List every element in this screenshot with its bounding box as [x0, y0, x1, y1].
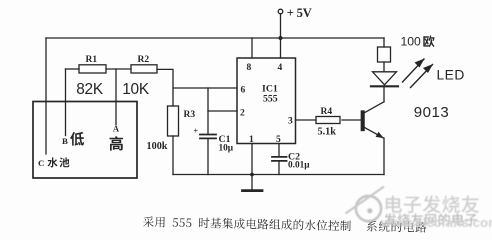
caption [143, 216, 427, 232]
wire electrode B [65, 69, 67, 136]
label ohm char [423, 35, 434, 47]
label shuichi (tank) [48, 157, 70, 167]
svg-text:LED: LED [437, 68, 465, 83]
svg-text:B: B [62, 136, 68, 146]
tank box [33, 102, 137, 179]
wire pin2 [208, 110, 237, 112]
watermark logo slash [346, 187, 385, 214]
svg-text:R3: R3 [184, 110, 196, 120]
svg-text:10K: 10K [122, 81, 150, 98]
watermark text mid [384, 213, 477, 225]
label gao (high) [110, 136, 124, 150]
svg-text:+ 5V: + 5V [287, 6, 312, 20]
svg-text:R4: R4 [321, 107, 333, 117]
label di (low) [70, 132, 84, 146]
LED arrowheads [415, 59, 425, 68]
power +5V terminal [278, 9, 283, 14]
svg-text:0.01μ: 0.01μ [288, 161, 310, 171]
wire right drop to R5 [383, 38, 385, 47]
IC U1 555 [237, 58, 296, 144]
watermark logo circle [356, 196, 381, 221]
svg-text:100: 100 [401, 35, 422, 49]
svg-text:1: 1 [249, 135, 254, 145]
capacitor C2 [278, 144, 280, 157]
wire base [342, 119, 361, 121]
svg-text:5: 5 [276, 135, 281, 145]
svg-text:10μ: 10μ [219, 144, 234, 154]
resistor 100ohm [378, 47, 391, 62]
resistor R3 [168, 106, 179, 136]
svg-text:www.elecfans.com: www.elecfans.com [380, 215, 492, 230]
wire pin1 drop [251, 144, 253, 175]
svg-text:555: 555 [263, 94, 278, 105]
LED light arrows [403, 59, 433, 88]
svg-text:82K: 82K [76, 81, 104, 98]
resistor R2 [131, 65, 157, 73]
capacitor C1 [207, 88, 209, 134]
svg-text:3: 3 [288, 117, 293, 127]
wire pin8 drop [251, 38, 253, 58]
svg-text:R1: R1 [86, 55, 98, 65]
junction dot +5V [279, 36, 283, 40]
transistor Q1 9013 [364, 102, 385, 114]
wire top rail [46, 37, 384, 39]
wire R2 corner to R3 [157, 69, 173, 106]
svg-text:R2: R2 [138, 55, 150, 65]
svg-text:8: 8 [247, 63, 252, 73]
svg-text:9013: 9013 [414, 104, 449, 121]
transistor emitter arrow [376, 132, 384, 139]
svg-text:5.1k: 5.1k [318, 127, 337, 138]
watermark text big [386, 195, 479, 213]
resistor R4 [316, 117, 340, 124]
wire bottom rail [173, 174, 384, 176]
svg-text:C: C [38, 158, 44, 168]
resistor R1 [79, 65, 106, 73]
svg-text:A: A [113, 124, 120, 134]
ground [251, 175, 253, 190]
wire electrode A [115, 69, 117, 125]
svg-text:6: 6 [241, 86, 246, 96]
junction dot gnd [250, 173, 254, 177]
LED D1 [373, 72, 397, 85]
wire left drop / electrode C [45, 38, 47, 154]
svg-text:2: 2 [240, 109, 245, 119]
svg-text:100k: 100k [147, 141, 168, 152]
svg-text:+: + [194, 127, 199, 136]
wire pin3 [296, 119, 317, 121]
wire pin6 [173, 87, 237, 89]
svg-text:4: 4 [278, 63, 283, 73]
